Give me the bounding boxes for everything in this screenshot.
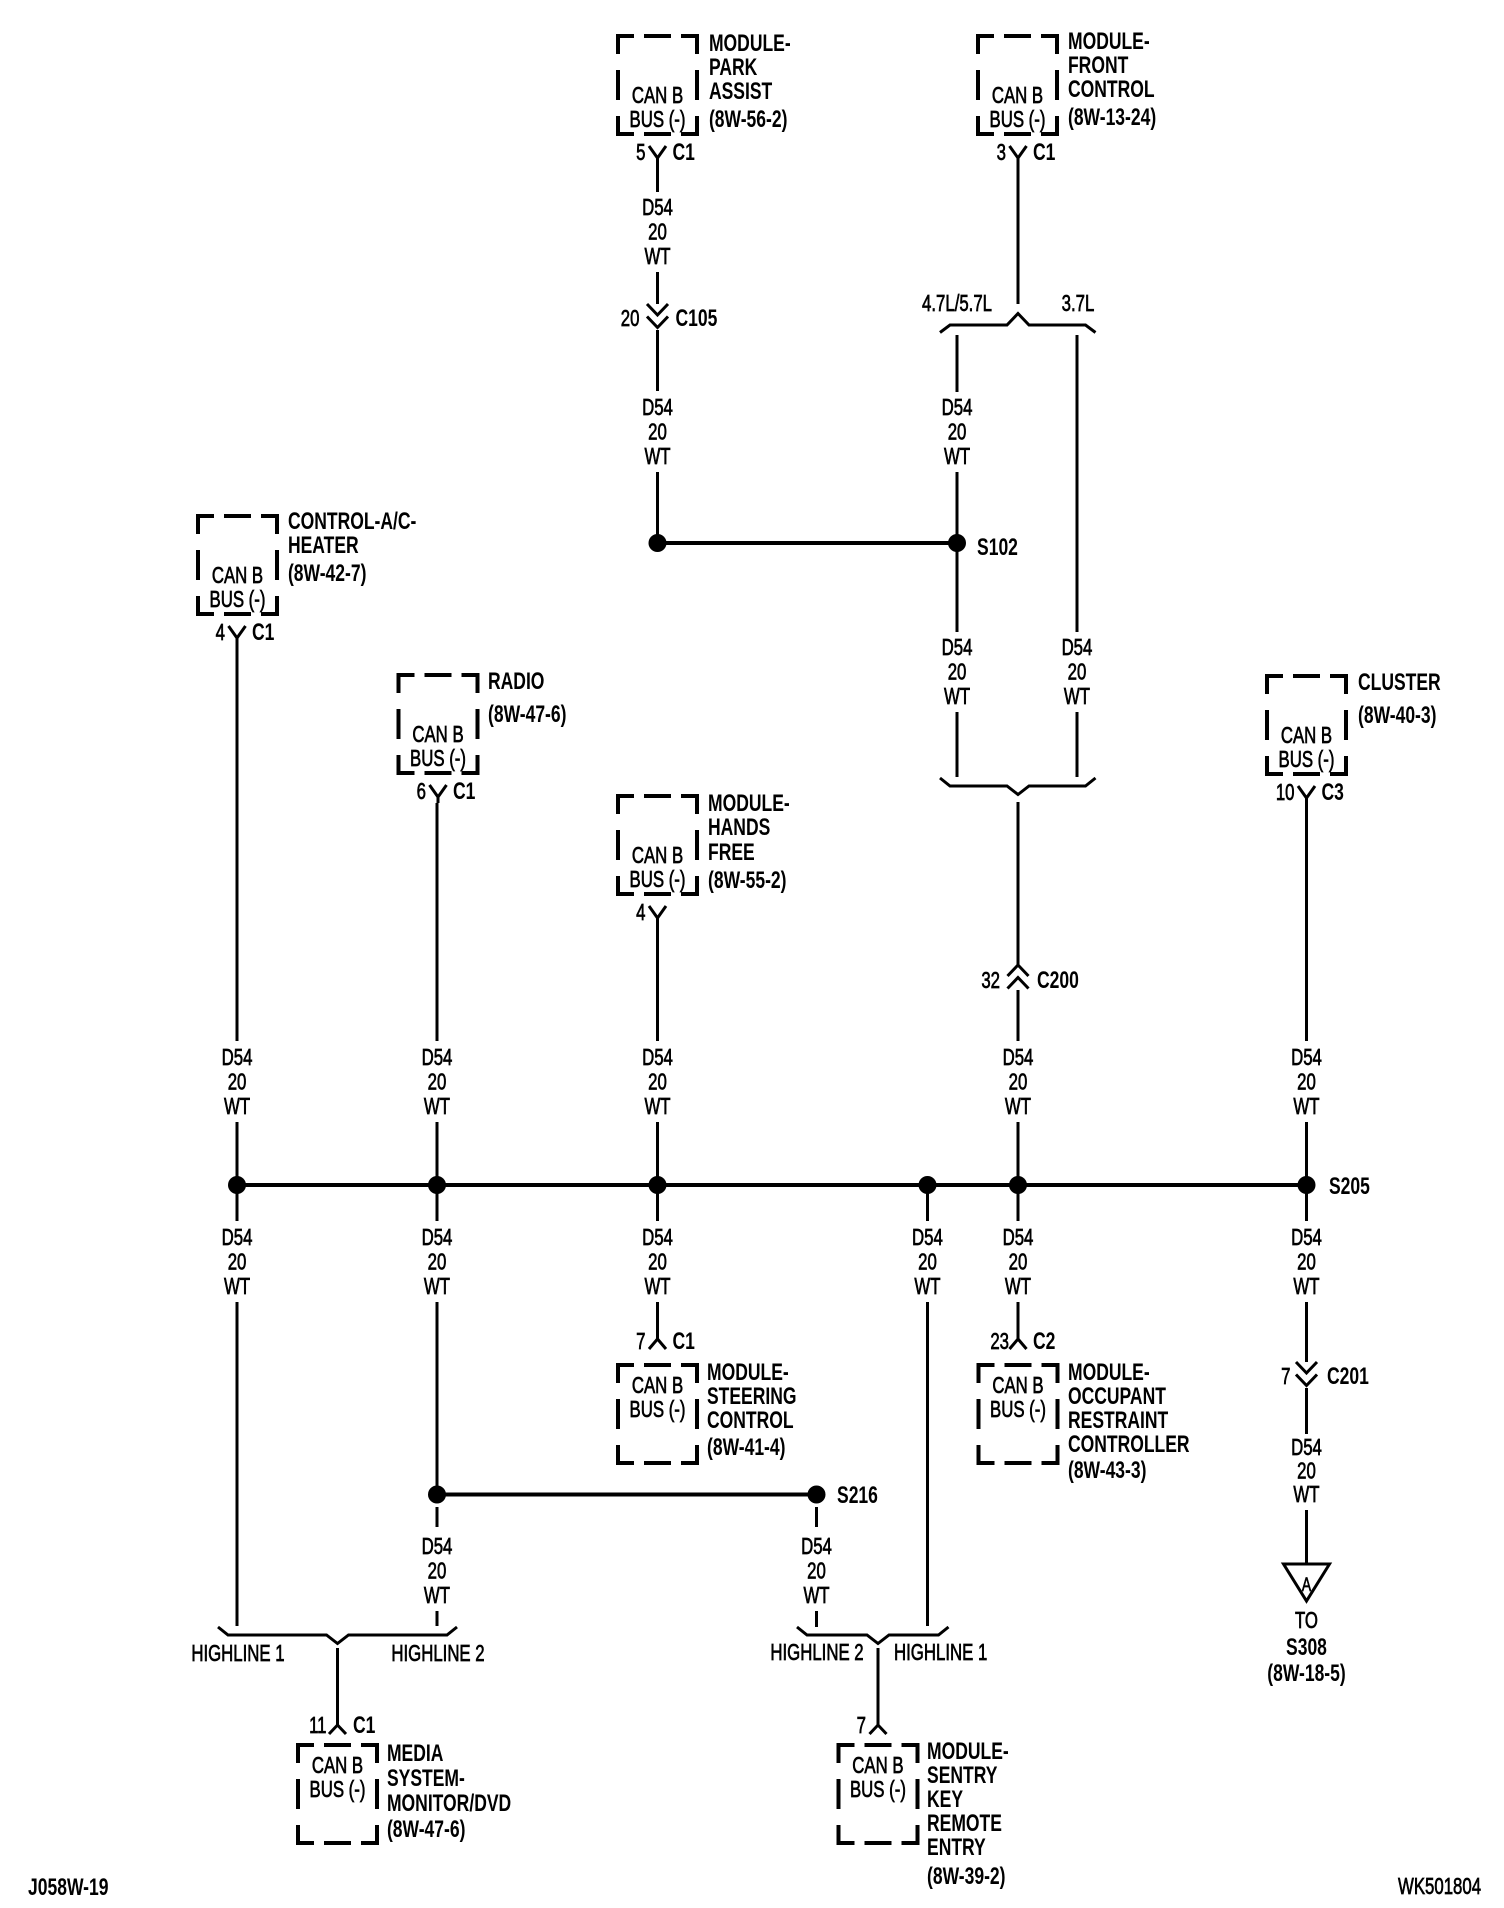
svg-text:7: 7 xyxy=(857,1714,866,1739)
svg-text:D54: D54 xyxy=(642,196,673,221)
svg-text:WT: WT xyxy=(424,1275,450,1300)
svg-text:CONTROL-A/C-: CONTROL-A/C- xyxy=(288,508,416,534)
svg-text:S308: S308 xyxy=(1286,1634,1327,1660)
wire xyxy=(656,472,659,543)
svg-text:(8W-40-3): (8W-40-3) xyxy=(1358,702,1436,728)
svg-text:RESTRAINT: RESTRAINT xyxy=(1068,1407,1168,1433)
svg-text:20: 20 xyxy=(428,1070,447,1095)
svg-text:ENTRY: ENTRY xyxy=(927,1834,986,1860)
drawing number J058W-19 xyxy=(28,1874,108,1900)
svg-text:WT: WT xyxy=(224,1275,250,1300)
svg-text:20: 20 xyxy=(1297,1070,1316,1095)
junction node xyxy=(228,1176,246,1194)
svg-text:TO: TO xyxy=(1295,1609,1318,1634)
wire xyxy=(336,1648,339,1725)
svg-text:WT: WT xyxy=(644,1095,670,1120)
svg-text:WT: WT xyxy=(1293,1483,1319,1508)
label MODULE-HANDS FREE (8W-55-2) xyxy=(708,790,790,893)
wire label D54 20 WT xyxy=(642,1226,673,1300)
wire xyxy=(1017,164,1020,304)
connector C1 label xyxy=(1033,139,1056,165)
wire xyxy=(236,1122,239,1185)
svg-text:20: 20 xyxy=(428,1559,447,1584)
wire xyxy=(656,924,659,1041)
junction node xyxy=(428,1486,446,1504)
wire label D54 20 WT xyxy=(642,196,673,270)
pin 3 label xyxy=(997,141,1006,166)
module box U3 CONTROL-A/C-HEATER xyxy=(198,516,277,614)
label MODULE-PARK ASSIST (8W-56-2) xyxy=(709,30,791,132)
module box U6 CLUSTER xyxy=(1267,676,1346,774)
svg-text:20: 20 xyxy=(228,1250,247,1275)
svg-text:6: 6 xyxy=(417,780,426,805)
svg-text:BUS (-): BUS (-) xyxy=(630,868,686,893)
label MODULE-OCCUPANT RESTRAINT CONTROLLER (8W-43-3) xyxy=(1068,1359,1190,1483)
svg-text:HIGHLINE 2: HIGHLINE 2 xyxy=(391,1642,484,1667)
svg-text:D54: D54 xyxy=(1003,1226,1034,1251)
label MODULE-STEERING CONTROL (8W-41-4) xyxy=(707,1359,797,1460)
sheet number WK501804 xyxy=(1398,1875,1481,1900)
label CAN B BUS (-) inside U5 xyxy=(630,844,686,893)
svg-text:HIGHLINE 2: HIGHLINE 2 xyxy=(770,1641,863,1666)
svg-text:(8W-42-7): (8W-42-7) xyxy=(288,560,366,586)
wire xyxy=(956,543,959,632)
connector pin 4 of U5 xyxy=(649,906,666,924)
svg-text:HIGHLINE 1: HIGHLINE 1 xyxy=(191,1642,284,1667)
wire xyxy=(1305,1510,1308,1563)
svg-text:WT: WT xyxy=(224,1095,250,1120)
label HIGHLINE 1 xyxy=(191,1642,284,1667)
wire xyxy=(236,644,239,1041)
connector pin 3 C1 of U2 xyxy=(1010,146,1027,164)
label MODULE-FRONT CONTROL (8W-13-24) xyxy=(1068,28,1156,130)
svg-text:D54: D54 xyxy=(1003,1046,1034,1071)
wire label D54 20 WT xyxy=(1291,1226,1322,1300)
svg-text:STEERING: STEERING xyxy=(707,1383,797,1409)
svg-text:C105: C105 xyxy=(675,305,717,331)
wire label D54 20 WT xyxy=(222,1226,253,1300)
svg-text:WT: WT xyxy=(1005,1275,1031,1300)
label 4.7L/5.7L xyxy=(922,292,992,317)
svg-text:D54: D54 xyxy=(642,396,673,421)
wire label D54 20 WT xyxy=(1291,1046,1322,1120)
svg-text:BUS (-): BUS (-) xyxy=(1279,748,1335,773)
wire label D54 20 WT xyxy=(422,1535,453,1609)
label TO xyxy=(1295,1609,1318,1634)
wire label D54 20 WT xyxy=(1003,1046,1034,1120)
wire label D54 20 WT xyxy=(801,1535,832,1609)
junction node xyxy=(1009,1176,1027,1194)
svg-text:D54: D54 xyxy=(942,636,973,661)
label CAN B BUS (-) inside U1 xyxy=(630,84,686,133)
label MODULE-SENTRY KEY REMOTE ENTRY (8W-39-2) xyxy=(927,1738,1009,1889)
connector C105 label xyxy=(675,305,717,331)
svg-text:MODULE-: MODULE- xyxy=(709,30,791,56)
svg-text:HIGHLINE 1: HIGHLINE 1 xyxy=(894,1641,987,1666)
pin 4 label xyxy=(636,901,645,926)
module box U10 MODULE-SENTRY KEY REMOTE ENTRY xyxy=(839,1745,918,1843)
wire label D54 20 WT xyxy=(1291,1436,1322,1508)
svg-text:20: 20 xyxy=(948,420,967,445)
svg-text:MODULE-: MODULE- xyxy=(708,790,790,816)
connector C1 label xyxy=(672,1328,695,1354)
svg-text:C1: C1 xyxy=(672,1328,695,1354)
pin 4 label xyxy=(216,621,225,646)
svg-text:CAN B: CAN B xyxy=(992,1374,1043,1399)
svg-text:11: 11 xyxy=(309,1714,326,1739)
wire label D54 20 WT xyxy=(642,396,673,470)
svg-text:FRONT: FRONT xyxy=(1068,52,1128,78)
wire xyxy=(436,1302,439,1495)
svg-text:4.7L/5.7L: 4.7L/5.7L xyxy=(922,292,992,317)
connector C1 label xyxy=(672,139,695,165)
svg-text:CONTROLLER: CONTROLLER xyxy=(1068,1431,1190,1457)
junction node xyxy=(428,1176,446,1194)
svg-text:CAN B: CAN B xyxy=(212,564,263,589)
splice S102 xyxy=(948,534,966,552)
svg-text:20: 20 xyxy=(648,1070,667,1095)
label CAN B BUS (-) inside U8 xyxy=(990,1374,1046,1423)
wire xyxy=(956,472,959,543)
pin 7 label xyxy=(636,1330,645,1355)
svg-text:BUS (-): BUS (-) xyxy=(410,747,466,772)
svg-text:CAN B: CAN B xyxy=(312,1754,363,1779)
label CAN B BUS (-) inside U10 xyxy=(850,1754,906,1803)
connector C1 label xyxy=(453,778,476,804)
svg-text:20: 20 xyxy=(948,660,967,685)
pin 7 label at C201 xyxy=(1281,1365,1290,1390)
svg-text:(8W-41-4): (8W-41-4) xyxy=(707,1434,785,1460)
svg-text:20: 20 xyxy=(648,1250,667,1275)
engine merge brace xyxy=(940,778,1096,795)
wire label D54 20 WT xyxy=(642,1046,673,1120)
wire xyxy=(236,1185,239,1221)
svg-text:(8W-55-2): (8W-55-2) xyxy=(708,867,786,893)
label S308 xyxy=(1286,1634,1327,1660)
svg-text:FREE: FREE xyxy=(708,839,755,865)
connector pin 4 C1 of U3 xyxy=(229,626,246,644)
label HIGHLINE 1 xyxy=(894,1641,987,1666)
svg-text:D54: D54 xyxy=(1291,1436,1322,1461)
pin 6 label xyxy=(417,780,426,805)
svg-text:20: 20 xyxy=(621,307,640,332)
svg-text:WT: WT xyxy=(803,1584,829,1609)
svg-text:C1: C1 xyxy=(353,1712,376,1738)
junction node xyxy=(919,1176,937,1194)
svg-text:WK501804: WK501804 xyxy=(1398,1875,1481,1900)
svg-text:(8W-56-2): (8W-56-2) xyxy=(709,106,787,132)
connector pin 6 C1 of U4 xyxy=(430,785,447,803)
svg-text:BUS (-): BUS (-) xyxy=(210,588,266,613)
svg-text:C3: C3 xyxy=(1322,779,1344,805)
wire xyxy=(926,1185,929,1221)
connector pin 10 C3 of U6 xyxy=(1298,786,1315,804)
wire main CAN B bus xyxy=(237,1183,1307,1187)
wire xyxy=(656,164,659,192)
svg-text:D54: D54 xyxy=(912,1226,943,1251)
wire xyxy=(1017,1185,1020,1221)
svg-text:7: 7 xyxy=(636,1330,645,1355)
label CAN B BUS (-) inside U7 xyxy=(630,1374,686,1423)
wire xyxy=(436,1185,439,1221)
svg-text:HEATER: HEATER xyxy=(288,532,359,558)
pin 5 label xyxy=(636,141,645,166)
svg-text:D54: D54 xyxy=(642,1226,673,1251)
svg-text:WT: WT xyxy=(424,1095,450,1120)
junction node xyxy=(649,1176,667,1194)
svg-text:3.7L: 3.7L xyxy=(1062,292,1095,317)
svg-text:BUS (-): BUS (-) xyxy=(990,108,1046,133)
wire label D54 20 WT xyxy=(222,1046,253,1120)
svg-text:D54: D54 xyxy=(642,1046,673,1071)
svg-text:10: 10 xyxy=(1276,781,1295,806)
svg-text:D54: D54 xyxy=(1291,1226,1322,1251)
svg-text:CAN B: CAN B xyxy=(992,84,1043,109)
svg-text:20: 20 xyxy=(1009,1070,1028,1095)
svg-text:20: 20 xyxy=(228,1070,247,1095)
splice S205 xyxy=(1298,1176,1316,1194)
splice S205 label xyxy=(1329,1173,1370,1199)
wire xyxy=(656,272,659,304)
svg-text:REMOTE: REMOTE xyxy=(927,1810,1002,1836)
svg-text:4: 4 xyxy=(636,901,645,926)
connector C200 label xyxy=(1037,967,1079,993)
svg-text:MODULE-: MODULE- xyxy=(1068,1359,1150,1385)
module box U8 MODULE-OCCUPANT RESTRAINT CONTROLLER xyxy=(979,1365,1058,1463)
svg-text:ASSIST: ASSIST xyxy=(709,78,772,104)
label CAN B BUS (-) inside U2 xyxy=(990,84,1046,133)
module box U4 RADIO xyxy=(399,675,478,773)
connector pin 23 C2 of occupant module xyxy=(1010,1339,1027,1349)
svg-text:C2: C2 xyxy=(1033,1328,1055,1354)
svg-text:20: 20 xyxy=(428,1250,447,1275)
svg-text:BUS (-): BUS (-) xyxy=(850,1778,906,1803)
svg-text:CAN B: CAN B xyxy=(412,723,463,748)
pin 32 label at C200 xyxy=(981,969,1000,994)
svg-text:WT: WT xyxy=(424,1584,450,1609)
svg-text:D54: D54 xyxy=(222,1046,253,1071)
pin 23 label xyxy=(990,1330,1009,1355)
wire xyxy=(1305,1185,1308,1221)
svg-text:20: 20 xyxy=(1297,1250,1316,1275)
svg-text:WT: WT xyxy=(644,1275,670,1300)
svg-text:WT: WT xyxy=(1005,1095,1031,1120)
svg-text:D54: D54 xyxy=(942,396,973,421)
wire 3.7L branch xyxy=(1076,335,1079,632)
svg-text:CONTROL: CONTROL xyxy=(1068,76,1155,102)
wire label D54 20 WT xyxy=(422,1046,453,1120)
svg-text:HANDS: HANDS xyxy=(708,814,770,840)
svg-text:A: A xyxy=(1302,1574,1312,1596)
node splice junction xyxy=(649,534,667,552)
svg-text:23: 23 xyxy=(990,1330,1009,1355)
svg-text:PARK: PARK xyxy=(709,54,757,80)
off-page connector A label xyxy=(1302,1574,1312,1596)
svg-text:CAN B: CAN B xyxy=(1281,724,1332,749)
svg-text:20: 20 xyxy=(648,420,667,445)
svg-text:D54: D54 xyxy=(1291,1046,1322,1071)
splice S216 label xyxy=(837,1482,878,1508)
wire S216 horizontal xyxy=(437,1493,817,1497)
svg-text:7: 7 xyxy=(1281,1365,1290,1390)
wire (highline 2 dashed) xyxy=(815,1507,818,1527)
svg-text:MODULE-: MODULE- xyxy=(707,1359,789,1385)
svg-text:WT: WT xyxy=(914,1275,940,1300)
svg-text:SYSTEM-: SYSTEM- xyxy=(387,1765,465,1791)
wire xyxy=(656,330,659,391)
svg-text:S205: S205 xyxy=(1329,1173,1370,1199)
svg-text:D54: D54 xyxy=(422,1535,453,1560)
svg-text:20: 20 xyxy=(1009,1250,1028,1275)
module box U9 MEDIA SYSTEM-MONITOR/DVD xyxy=(298,1745,377,1843)
label CONTROL-A/C-HEATER (8W-42-7) xyxy=(288,508,416,586)
svg-text:CAN B: CAN B xyxy=(632,1374,683,1399)
svg-text:3: 3 xyxy=(997,141,1006,166)
svg-text:WT: WT xyxy=(944,445,970,470)
wire xyxy=(236,1302,239,1626)
pin 10 label xyxy=(1276,781,1295,806)
svg-text:RADIO: RADIO xyxy=(488,668,544,694)
wire (highline 2 dashed) xyxy=(436,1507,439,1527)
wire xyxy=(956,335,959,392)
svg-text:(8W-18-5): (8W-18-5) xyxy=(1267,1660,1345,1686)
label CLUSTER (8W-40-3) xyxy=(1358,669,1441,728)
svg-text:20: 20 xyxy=(807,1559,826,1584)
svg-text:(8W-13-24): (8W-13-24) xyxy=(1068,104,1156,130)
pin 20 label at C105 xyxy=(621,307,640,332)
svg-text:BUS (-): BUS (-) xyxy=(630,108,686,133)
svg-text:D54: D54 xyxy=(422,1226,453,1251)
svg-text:S102: S102 xyxy=(977,534,1018,560)
svg-text:CONTROL: CONTROL xyxy=(707,1407,794,1433)
wire label D54 20 WT xyxy=(942,396,973,470)
svg-text:C200: C200 xyxy=(1037,967,1079,993)
wire label D54 20 WT xyxy=(1062,636,1093,710)
svg-text:OCCUPANT: OCCUPANT xyxy=(1068,1383,1166,1409)
svg-text:C1: C1 xyxy=(252,619,275,645)
module box U2 MODULE-FRONT CONTROL xyxy=(978,36,1057,134)
svg-text:WT: WT xyxy=(644,445,670,470)
label HIGHLINE 2 xyxy=(391,1642,484,1667)
wire xyxy=(1305,804,1308,1041)
svg-text:S216: S216 xyxy=(837,1482,878,1508)
svg-text:CAN B: CAN B xyxy=(632,84,683,109)
connector C201 inline xyxy=(1296,1362,1317,1386)
svg-text:CAN B: CAN B xyxy=(632,844,683,869)
svg-text:CLUSTER: CLUSTER xyxy=(1358,669,1441,695)
svg-text:D54: D54 xyxy=(422,1046,453,1071)
svg-text:WT: WT xyxy=(1293,1275,1319,1300)
wire label D54 20 WT xyxy=(422,1226,453,1300)
label CAN B BUS (-) inside U9 xyxy=(310,1754,366,1803)
off-page connector A (triangle) xyxy=(1284,1564,1330,1601)
wire xyxy=(1305,1302,1308,1362)
svg-text:C1: C1 xyxy=(453,778,476,804)
svg-text:BUS (-): BUS (-) xyxy=(310,1778,366,1803)
svg-text:4: 4 xyxy=(216,621,225,646)
label RADIO (8W-47-6) xyxy=(488,668,566,727)
module box U1 MODULE-PARK ASSIST xyxy=(618,36,697,134)
svg-text:WT: WT xyxy=(1064,685,1090,710)
highline gather brace right xyxy=(797,1627,949,1644)
label CAN B BUS (-) inside U6 xyxy=(1279,724,1335,773)
svg-text:(8W-43-3): (8W-43-3) xyxy=(1068,1457,1146,1483)
wire xyxy=(436,1122,439,1185)
splice S102 label xyxy=(977,534,1018,560)
splice S216 xyxy=(808,1486,826,1504)
connector C1 label xyxy=(353,1712,376,1738)
connector C200 inline xyxy=(1008,965,1029,989)
svg-text:C201: C201 xyxy=(1327,1363,1369,1389)
highline gather brace left xyxy=(218,1627,457,1644)
svg-text:MONITOR/DVD: MONITOR/DVD xyxy=(387,1790,511,1816)
connector C1 label xyxy=(252,619,275,645)
label 3.7L xyxy=(1062,292,1095,317)
pin 7 label xyxy=(857,1714,866,1739)
wire xyxy=(1305,1122,1308,1185)
svg-text:D54: D54 xyxy=(222,1226,253,1251)
wire label D54 20 WT xyxy=(942,636,973,710)
svg-text:CAN B: CAN B xyxy=(852,1754,903,1779)
connector pin 7 C1 of steering module xyxy=(649,1339,666,1349)
svg-text:MEDIA: MEDIA xyxy=(387,1740,443,1766)
svg-text:32: 32 xyxy=(981,969,1000,994)
svg-text:MODULE-: MODULE- xyxy=(1068,28,1150,54)
svg-text:5: 5 xyxy=(636,141,645,166)
label (8W-18-5) xyxy=(1267,1660,1345,1686)
module box U5 MODULE-HANDS FREE xyxy=(618,796,697,894)
svg-text:KEY: KEY xyxy=(927,1786,963,1812)
label CAN B BUS (-) inside U3 xyxy=(210,564,266,613)
wire xyxy=(877,1648,880,1725)
svg-text:(8W-47-6): (8W-47-6) xyxy=(488,701,566,727)
svg-text:BUS (-): BUS (-) xyxy=(630,1398,686,1423)
connector C2 label xyxy=(1033,1328,1055,1354)
svg-text:MODULE-: MODULE- xyxy=(927,1738,1009,1764)
wire xyxy=(436,803,439,1041)
wire xyxy=(1076,712,1079,777)
svg-text:(8W-39-2): (8W-39-2) xyxy=(927,1863,1005,1889)
module box U7 MODULE-STEERING CONTROL xyxy=(618,1365,697,1463)
svg-text:J058W-19: J058W-19 xyxy=(28,1874,108,1900)
wire (highline 2 dashed) xyxy=(436,1611,439,1626)
label MEDIA SYSTEM-MONITOR/DVD (8W-47-6) xyxy=(387,1740,511,1842)
wire label D54 20 WT xyxy=(912,1226,943,1300)
wire xyxy=(1017,990,1020,1041)
connector C3 label xyxy=(1322,779,1344,805)
label HIGHLINE 2 xyxy=(770,1641,863,1666)
svg-text:D54: D54 xyxy=(1062,636,1093,661)
pin 11 label xyxy=(309,1714,326,1739)
svg-text:WT: WT xyxy=(944,685,970,710)
connector pin 11 C1 of media module xyxy=(329,1725,346,1734)
label CAN B BUS (-) inside U4 xyxy=(410,723,466,772)
svg-text:SENTRY: SENTRY xyxy=(927,1762,997,1788)
wire xyxy=(1017,1122,1020,1185)
wire xyxy=(1305,1388,1308,1434)
svg-text:WT: WT xyxy=(644,245,670,270)
wire xyxy=(656,1122,659,1185)
wire xyxy=(926,1302,929,1626)
svg-text:C1: C1 xyxy=(672,139,695,165)
wire xyxy=(956,712,959,777)
svg-text:20: 20 xyxy=(918,1250,937,1275)
wire xyxy=(1017,802,1020,965)
wire xyxy=(656,1185,659,1221)
wire xyxy=(656,1302,659,1339)
connector pin 7 of sentry module xyxy=(870,1725,887,1734)
connector pin 5 C1 of U1 xyxy=(649,146,666,164)
